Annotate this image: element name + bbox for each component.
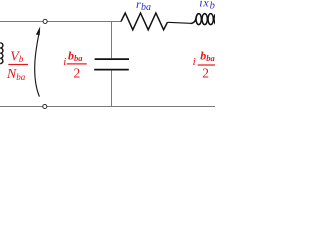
node A (top, open circle) — [43, 19, 47, 23]
wire capacitor bottom lead — [111, 70, 113, 106]
label Vb/Nba (red fraction) — [6, 49, 28, 82]
label i b_ba/2 right (red current label, cut off) — [193, 48, 216, 80]
svg-text:i: i — [63, 56, 66, 68]
wire bottom horizontal — [0, 106, 215, 108]
svg-text:Vb: Vb — [10, 49, 24, 64]
svg-text:rba: rba — [136, 0, 151, 13]
resistor r_ba — [121, 13, 167, 30]
svg-text:Nba: Nba — [6, 67, 26, 82]
wire resistor to inductor — [167, 22, 190, 23]
svg-text:2: 2 — [202, 65, 209, 80]
svg-text:i: i — [193, 56, 196, 68]
capacitor b_ba/2 — [94, 59, 129, 70]
svg-text:bba: bba — [68, 48, 83, 63]
arrow (curved gain arrow from bottom node to top node) — [35, 31, 40, 97]
svg-text:bba: bba — [200, 48, 215, 63]
node B (bottom, open circle) — [43, 104, 47, 108]
wire junction vertical (top wire to capacitor) — [111, 22, 113, 58]
inductor ix_b (loops, cut off at right edge) — [191, 14, 220, 25]
svg-text:ixb: ixb — [199, 0, 215, 12]
wire top horizontal — [0, 21, 121, 23]
winding (left-edge transformer coil, cut off) — [0, 43, 3, 64]
svg-text:2: 2 — [74, 66, 81, 81]
label i b_ba/2 left (red current label) — [63, 48, 86, 80]
